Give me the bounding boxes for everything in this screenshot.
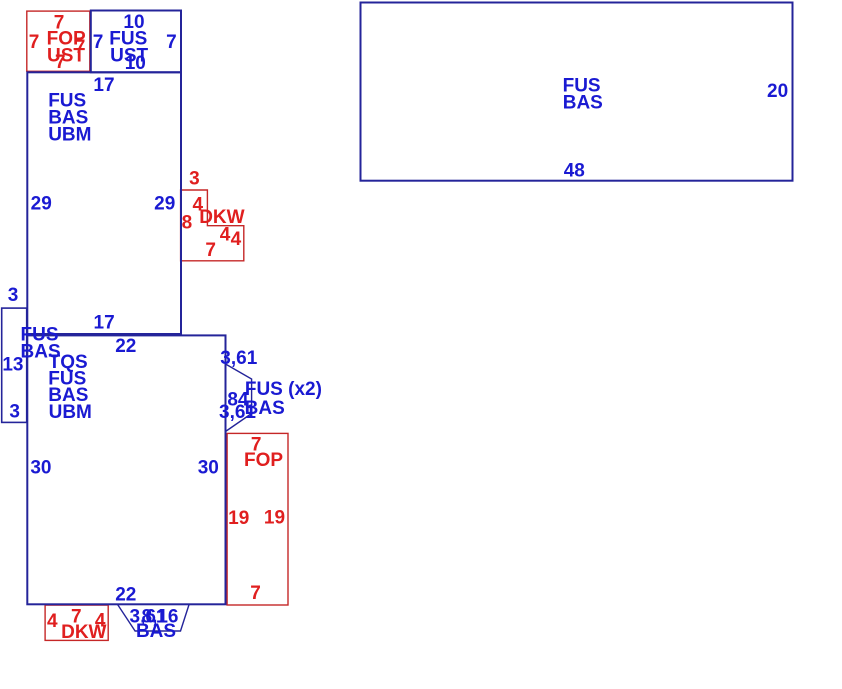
svg-text:7: 7 bbox=[250, 583, 261, 604]
svg-text:BAS: BAS bbox=[245, 398, 285, 419]
svg-text:7: 7 bbox=[93, 32, 104, 53]
svg-text:BAS: BAS bbox=[136, 621, 176, 642]
svg-text:7: 7 bbox=[166, 32, 177, 53]
svg-text:30: 30 bbox=[30, 458, 51, 479]
svg-text:3: 3 bbox=[9, 401, 20, 422]
svg-text:19: 19 bbox=[228, 508, 249, 529]
svg-text:17: 17 bbox=[94, 312, 115, 333]
svg-text:3,61: 3,61 bbox=[220, 348, 257, 369]
svg-text:29: 29 bbox=[31, 194, 52, 215]
svg-text:22: 22 bbox=[115, 585, 136, 606]
svg-text:4: 4 bbox=[47, 611, 58, 632]
svg-text:22: 22 bbox=[115, 336, 136, 357]
svg-text:FUS (x2): FUS (x2) bbox=[245, 379, 322, 400]
svg-text:48: 48 bbox=[564, 160, 585, 181]
svg-text:20: 20 bbox=[767, 81, 788, 102]
svg-text:8: 8 bbox=[182, 212, 193, 233]
svg-text:UBM: UBM bbox=[49, 402, 92, 423]
svg-text:UBM: UBM bbox=[48, 124, 91, 145]
svg-text:13: 13 bbox=[2, 355, 23, 376]
svg-text:4: 4 bbox=[220, 225, 231, 246]
svg-text:17: 17 bbox=[93, 75, 114, 96]
svg-text:DKW: DKW bbox=[61, 622, 106, 643]
svg-text:4: 4 bbox=[231, 229, 242, 250]
svg-text:29: 29 bbox=[154, 194, 175, 215]
svg-text:7: 7 bbox=[55, 52, 66, 73]
svg-text:3: 3 bbox=[8, 285, 19, 306]
svg-text:UST: UST bbox=[47, 46, 85, 67]
svg-text:BAS: BAS bbox=[563, 93, 603, 114]
svg-text:FOP: FOP bbox=[244, 450, 283, 471]
svg-text:10: 10 bbox=[125, 53, 146, 74]
svg-text:3: 3 bbox=[189, 169, 200, 190]
svg-text:30: 30 bbox=[198, 458, 219, 479]
svg-text:7: 7 bbox=[29, 32, 40, 53]
svg-text:7: 7 bbox=[205, 240, 216, 261]
svg-text:19: 19 bbox=[264, 508, 285, 529]
